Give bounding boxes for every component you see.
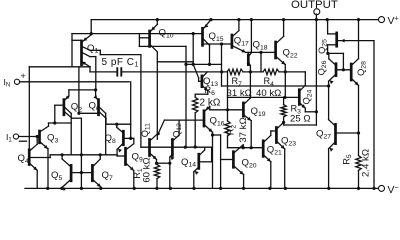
Q28 emitter	[352, 79, 359, 133]
Q10 base loop	[139, 34, 149, 47]
svg-text:Q17: Q17	[234, 35, 249, 47]
node Q18 junction	[259, 51, 262, 54]
Q8 emitter	[117, 143, 123, 156]
wire base bus147	[141, 146, 212, 148]
Q5 collector	[62, 155, 71, 167]
Q16 collector	[204, 125, 212, 135]
svg-text:Q26: Q26	[316, 60, 328, 75]
Q23 collector	[277, 122, 284, 128]
wire Q24e link	[305, 111, 316, 113]
wire C1 right bus	[121, 71, 227, 73]
Q2 base loop	[55, 105, 64, 123]
Q2 collector 2	[64, 112, 81, 155]
V- supply rail	[25, 187, 379, 189]
Q21 collector	[264, 131, 277, 142]
node rail Q21e	[268, 187, 271, 190]
node Q25 junction	[326, 52, 329, 55]
node rail Q16 junction	[219, 187, 222, 190]
wire Q24 base	[228, 96, 300, 99]
svg-text:I1: I1	[6, 132, 12, 144]
svg-text:Q27: Q27	[316, 128, 331, 140]
Q1 collector lead 2	[82, 53, 96, 57]
svg-text:Q7: Q7	[102, 170, 113, 182]
wire R5 top	[358, 133, 360, 156]
Q14 emitter	[194, 167, 199, 188]
node rail Q5e	[60, 187, 63, 190]
svg-text:Q21: Q21	[267, 144, 282, 156]
Q21 emitter	[264, 155, 271, 188]
wire Q13e to R6	[195, 91, 208, 97]
Q27 base wire	[336, 132, 359, 134]
node rail Q12e	[169, 187, 172, 190]
IN+ input terminal	[4, 71, 26, 89]
wire bus186 down	[185, 64, 187, 147]
transistor Q21	[263, 141, 282, 157]
Q7 collector	[93, 155, 100, 167]
svg-text:60 kΩ: 60 kΩ	[142, 157, 153, 182]
node Q12e tap	[168, 162, 171, 165]
Q26 emitter	[329, 74, 336, 86]
Q24 emitter	[300, 103, 306, 112]
wire bus193 down	[192, 34, 194, 62]
node rail Q7e	[99, 187, 102, 190]
Q10 emitter to rail	[150, 18, 159, 32]
node rail2 bus junction	[192, 32, 195, 35]
svg-text:R5: R5	[341, 154, 353, 165]
node IN Q8 base	[129, 137, 132, 140]
Q25 lead top	[326, 18, 337, 34]
Q24 collector	[300, 72, 306, 91]
svg-text:Q14: Q14	[181, 157, 196, 169]
node rail Q27e	[327, 187, 330, 190]
transistor Q20	[233, 152, 256, 170]
Q27 collector	[329, 86, 336, 126]
transistor Q19	[243, 103, 265, 118]
transistor Q10	[150, 27, 174, 46]
node Q26e junction	[327, 84, 330, 87]
Q11 collector	[150, 134, 157, 141]
Q18 base stub	[247, 52, 249, 55]
wire Q8 node right	[157, 120, 186, 135]
Q13 collector	[202, 72, 207, 77]
wire Q16c right	[213, 135, 221, 188]
transistor Q5	[51, 165, 71, 182]
node rail Q9e	[133, 187, 136, 190]
wire IN+ drop	[130, 82, 132, 139]
wire R6 down	[194, 113, 196, 147]
transistor Q23	[276, 128, 296, 148]
wire tap down	[220, 44, 223, 86]
wire base loop bottom	[49, 122, 72, 124]
wire node86 link	[222, 85, 329, 87]
Q6 emitter	[93, 90, 98, 101]
Q19 base wire	[210, 109, 244, 111]
wire C1 left	[90, 67, 117, 72]
wire Q17e to Q22 base	[246, 51, 276, 53]
wire base bus	[80, 155, 82, 189]
wire Q10-C1 bus down	[156, 52, 158, 139]
wire Q1-C2 drop	[95, 57, 97, 90]
V+ terminal	[379, 16, 399, 27]
V- terminal	[379, 185, 399, 196]
transistor Q9	[126, 148, 143, 164]
Q28 collector	[352, 18, 361, 65]
resistor R2 37k	[225, 72, 249, 143]
Q26 collector	[328, 53, 344, 65]
Q3 emitter	[40, 142, 48, 189]
node R6 bottom	[194, 145, 197, 148]
svg-text:5 pF C1: 5 pF C1	[102, 57, 139, 69]
svg-text:Q2: Q2	[71, 101, 82, 113]
transistor Q11	[140, 123, 152, 156]
transistor Q3	[40, 131, 59, 145]
wire output bus	[315, 20, 317, 125]
resistor R3 25	[281, 104, 311, 125]
transistor Q28	[351, 61, 367, 80]
Q6 base wire	[79, 112, 99, 114]
wire Q4 base top	[28, 67, 30, 150]
wire Q8e Q9 base	[117, 155, 125, 157]
Q20 emitter	[234, 166, 244, 188]
node rail Q14e	[192, 187, 195, 190]
wire to Q17 base	[222, 43, 232, 45]
node rail Q23e	[284, 187, 287, 190]
capacitor C1	[102, 57, 139, 76]
wire Q25e down	[373, 41, 375, 189]
wire lead1 corner	[100, 50, 141, 54]
wire R2 bottom	[228, 136, 244, 148]
wire mid link	[186, 63, 222, 65]
node rail Q3e	[46, 187, 49, 190]
svg-text:25 Ω: 25 Ω	[290, 113, 311, 124]
transistor Q1	[82, 41, 99, 65]
svg-text:Q4: Q4	[18, 153, 29, 165]
wire mirror bus	[50, 154, 117, 156]
node rail Q20e	[242, 187, 245, 190]
node wire155 bb	[80, 153, 83, 156]
svg-text:+: +	[21, 71, 26, 81]
transistor Q24	[299, 89, 313, 104]
node bus186 bottom	[184, 146, 187, 149]
transistor Q27	[316, 124, 336, 143]
Q15 emitter to rail	[203, 18, 213, 29]
Q20 base wire	[221, 159, 234, 161]
transistor Q22	[276, 42, 298, 60]
Q12 collector	[173, 120, 179, 141]
node Q17 base junction	[220, 42, 223, 45]
svg-text:Q24: Q24	[301, 89, 313, 104]
svg-text:Q11: Q11	[140, 123, 152, 137]
OUTPUT terminal	[291, 0, 338, 20]
wire R1 link	[157, 162, 170, 164]
node Q27 base junction	[357, 131, 360, 134]
wire R5 bottom	[357, 170, 360, 190]
svg-text:Q28: Q28	[356, 61, 368, 76]
Q9 collector	[126, 138, 134, 149]
svg-text:Q12: Q12	[171, 123, 183, 138]
resistor R1 60k	[132, 157, 160, 188]
transistor Q6	[89, 100, 100, 115]
Q13 emitter	[202, 86, 208, 91]
Q20 collector	[234, 145, 243, 153]
Q14 collector	[199, 147, 205, 155]
wire Q21 base link	[243, 147, 263, 149]
resistor R6 2k	[193, 85, 221, 113]
node Q2 base loop	[53, 121, 56, 124]
transistor Q15	[203, 28, 224, 45]
transistor Q26	[316, 60, 336, 75]
Q6 collector 2	[99, 112, 106, 125]
node R4 Q22 junction	[284, 70, 287, 73]
Q5 base wire	[71, 172, 92, 174]
Q15 collector 2 wire	[203, 43, 222, 45]
Q26 base wire	[336, 69, 351, 71]
wire R7-R4 link	[243, 71, 263, 73]
Q13 base diagonal	[193, 64, 202, 81]
Q22 collector	[276, 18, 285, 43]
Q6 collector 1	[99, 107, 106, 155]
Q25 emitter wire	[337, 39, 374, 43]
svg-text:V−: V−	[388, 185, 399, 196]
wire I1 to Q3 base	[19, 136, 40, 138]
node output bus tap	[315, 110, 318, 113]
svg-text:Q8: Q8	[105, 133, 116, 145]
node tail junction	[94, 88, 97, 91]
node rail bb	[80, 187, 83, 190]
node bus186	[184, 63, 187, 66]
Q2 emitter	[64, 90, 69, 101]
wire Q18 tap down	[260, 52, 262, 72]
svg-text:Q22: Q22	[283, 48, 298, 60]
wire R3 bottom link	[284, 124, 317, 126]
node wire155 Q7c	[99, 153, 102, 156]
node output-rail junction	[315, 18, 318, 21]
Q16 emitter up	[204, 106, 209, 111]
Q18 collector	[249, 18, 253, 56]
svg-text:37 kΩ: 37 kΩ	[238, 117, 249, 142]
node R1 top	[155, 162, 158, 165]
V+ supply rail	[91, 19, 379, 21]
Q8 base wire	[123, 137, 133, 139]
Q5 emitter	[62, 180, 70, 192]
transistor Q17	[232, 35, 249, 48]
Q10 collector 2 wire	[150, 46, 186, 64]
Q7 emitter	[93, 180, 101, 189]
Q9 emitter	[126, 163, 134, 188]
svg-text:Q20: Q20	[242, 158, 257, 170]
node Q19e junction	[250, 146, 253, 149]
Q8 collector	[117, 124, 123, 132]
Q23 emitter	[277, 141, 285, 188]
Q15 collector 1	[203, 39, 210, 65]
svg-text:V+: V+	[388, 16, 399, 27]
wire Q16c down	[212, 135, 214, 188]
svg-text:2.4 kΩ: 2.4 kΩ	[361, 149, 372, 177]
wire bus285 down	[284, 72, 286, 98]
Q19 emitter	[244, 115, 251, 148]
transistor Q25	[317, 33, 337, 54]
Q22 emitter	[276, 57, 285, 72]
Q27 emitter	[329, 142, 336, 188]
Q4 emitter	[30, 163, 38, 188]
transistor Q16	[204, 111, 225, 128]
wire base drop	[342, 53, 344, 69]
node wire155 Q5c	[61, 153, 64, 156]
Q17 emitter	[232, 46, 245, 53]
svg-text:IN: IN	[4, 77, 11, 89]
wire rail2	[91, 33, 202, 35]
Q3 collector	[40, 123, 49, 132]
node Q20c junction	[242, 146, 245, 149]
transistor Q7	[92, 165, 113, 182]
Q17 collector	[232, 18, 240, 37]
transistor Q12	[171, 123, 183, 156]
svg-text:Q25: Q25	[317, 39, 329, 54]
resistor R5 2.4k	[341, 149, 371, 177]
Q19 collector	[244, 72, 251, 104]
Q2 collector 1	[64, 107, 71, 155]
svg-text:Q1: Q1	[87, 43, 98, 55]
Q12 emitter	[170, 154, 175, 189]
wire R3 top stub	[283, 97, 285, 104]
wire IN+ horizontal	[20, 81, 130, 83]
wire Q8 node left	[106, 123, 131, 126]
transistor Q18	[248, 40, 267, 65]
node rail R1	[155, 187, 158, 190]
Q1 base box	[72, 32, 93, 67]
svg-text:Q3: Q3	[47, 133, 58, 145]
node R2 top	[226, 108, 229, 111]
I1 input terminal	[6, 132, 27, 144]
Q10 collector 1	[150, 45, 157, 52]
transistor Q4	[18, 150, 30, 165]
transistor Q8	[105, 131, 124, 145]
svg-text:Q19: Q19	[251, 106, 266, 118]
wire R3 node	[282, 117, 285, 125]
node Q26Q28 base	[342, 68, 345, 71]
Q14 base loop	[199, 147, 212, 162]
Q16 base wire	[186, 119, 204, 121]
svg-text:Q18: Q18	[253, 40, 268, 52]
node Q16c junction	[211, 133, 214, 136]
svg-text:Q5: Q5	[51, 170, 62, 182]
node Q6 base	[77, 112, 80, 115]
node Q18e junction	[249, 70, 252, 73]
resistor R7 31k	[227, 69, 252, 99]
resistor R4 40k	[256, 69, 281, 99]
node Q5Q7 base	[80, 171, 83, 174]
svg-text:Q15: Q15	[209, 31, 224, 43]
transistor Q14	[181, 154, 199, 169]
Q11 emitter	[150, 153, 157, 163]
Q18 emitter	[247, 61, 251, 72]
wire center bus	[78, 67, 80, 114]
wire bus to Q11 base	[140, 55, 142, 148]
svg-text:Q16: Q16	[210, 116, 225, 128]
node Q15c1 junction	[192, 63, 212, 66]
transistor Q13	[202, 76, 218, 88]
node I1 Q4c	[36, 135, 39, 138]
wire branch t	[157, 62, 193, 65]
Q25 lead bottom	[328, 45, 337, 54]
transistor Q2	[64, 100, 82, 115]
wire Q1 node horizontal	[29, 66, 90, 68]
Q4 collector	[30, 137, 38, 152]
Q1 arrowed lead	[82, 62, 90, 67]
wire R4 right	[279, 71, 305, 73]
Q1 collector lead 1	[82, 47, 100, 51]
Q1 emitter to V+ rail	[82, 20, 91, 42]
Q4 base right	[29, 155, 50, 158]
wire tail link	[69, 89, 96, 91]
node rail 374	[372, 187, 375, 190]
